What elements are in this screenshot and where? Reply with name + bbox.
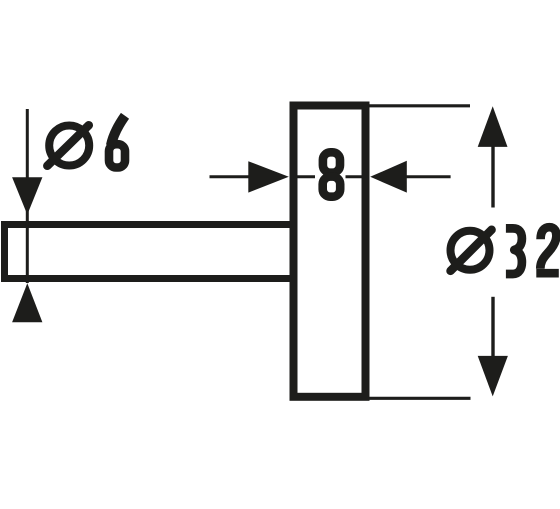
dimension 8 : inner line right of digit bbox=[346, 175, 364, 178]
label Ø32 : diameter circle bbox=[451, 231, 490, 270]
arrow Ø32 bottom (down) bbox=[478, 356, 508, 397]
shaft (rod) outline bbox=[5, 225, 294, 279]
extension line bottom (disc bottom to right) bbox=[370, 397, 471, 400]
dimension line Ø32 lower segment bbox=[491, 297, 494, 357]
label Ø32 : diameter slash bbox=[451, 230, 492, 271]
dimension 8 : left arrow (points right) bbox=[248, 161, 288, 192]
label Ø32 : digit 2 bbox=[536, 227, 559, 273]
dimension 8 : inner line left of digit bbox=[296, 175, 316, 178]
dimension line Ø6 (vertical thin line) bbox=[26, 109, 29, 283]
dimension 8 : right tail line bbox=[406, 175, 451, 178]
arrow Ø6 bottom (up) bbox=[12, 283, 42, 322]
label Ø6 : diameter circle bbox=[49, 126, 89, 166]
arrow Ø32 top (up) bbox=[478, 106, 508, 147]
label Ø6 : diameter slash bbox=[47, 125, 89, 166]
label 8 : digit 8 bbox=[323, 152, 341, 196]
dimension line Ø32 upper segment bbox=[491, 146, 494, 208]
dimension 8 : right arrow (points left) bbox=[370, 161, 407, 193]
dimension 8 : left tail line bbox=[210, 175, 251, 178]
label Ø6 : digit 6 bbox=[109, 116, 125, 168]
arrow Ø6 top (down) bbox=[12, 177, 42, 214]
label Ø32 : digit 3 bbox=[506, 228, 522, 274]
extension line top (disc top to right) bbox=[370, 104, 471, 107]
disc (flange) outline bbox=[294, 106, 366, 397]
